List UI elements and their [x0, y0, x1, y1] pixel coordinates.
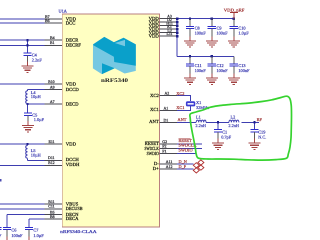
svg-text:10µH: 10µH: [31, 153, 41, 158]
svg-text:0.7pF: 0.7pF: [221, 135, 232, 140]
svg-text:100nF: 100nF: [238, 68, 250, 73]
svg-text:U1A: U1A: [59, 9, 68, 14]
svg-text:A9: A9: [50, 86, 55, 90]
svg-text:nRF5340-CLAA: nRF5340-CLAA: [60, 229, 98, 234]
svg-text:ANT: ANT: [149, 119, 159, 125]
svg-text:VDDH: VDDH: [66, 162, 80, 168]
svg-text:B10: B10: [48, 80, 55, 84]
svg-text:D11: D11: [48, 156, 55, 160]
svg-text:VDD: VDD: [66, 82, 77, 88]
svg-text:E11: E11: [48, 140, 54, 144]
svg-text:C7: C7: [33, 227, 39, 232]
svg-text:A12: A12: [166, 165, 173, 169]
svg-text:DECA: DECA: [66, 216, 79, 222]
svg-text:B12: B12: [48, 161, 55, 165]
svg-text:100nF: 100nF: [217, 68, 229, 73]
svg-text:nRF5340: nRF5340: [101, 78, 128, 84]
svg-text:A7: A7: [50, 100, 55, 104]
svg-text:DECRF: DECRF: [66, 42, 82, 48]
svg-text:SWDIO: SWDIO: [179, 148, 193, 153]
svg-text:XC1: XC1: [150, 107, 160, 113]
svg-text:DCCD: DCCD: [66, 87, 80, 93]
svg-text:F1: F1: [162, 150, 166, 154]
svg-text:100nF: 100nF: [217, 30, 229, 35]
svg-text:1.0µF: 1.0µF: [34, 117, 45, 122]
svg-text:B11: B11: [48, 200, 54, 204]
svg-text:L2: L2: [231, 115, 236, 120]
svg-text:RF: RF: [257, 117, 263, 122]
svg-text:F: F: [0, 233, 2, 238]
svg-text:A2: A2: [165, 92, 170, 96]
svg-text:L1: L1: [196, 115, 201, 120]
svg-text:1.0µF: 1.0µF: [238, 30, 249, 35]
svg-text:100nF: 100nF: [11, 233, 23, 238]
svg-text:DECUSB: DECUSB: [66, 206, 83, 212]
svg-text:SWDIO: SWDIO: [147, 151, 160, 157]
svg-text:ANT: ANT: [178, 117, 187, 122]
svg-text:F2: F2: [162, 145, 166, 149]
svg-text:VDD_nRF: VDD_nRF: [224, 7, 245, 12]
svg-text:VDD: VDD: [149, 34, 160, 40]
svg-text:C6: C6: [11, 227, 17, 232]
svg-text:B4: B4: [50, 36, 55, 40]
svg-text:1.0µF: 1.0µF: [33, 233, 44, 238]
svg-text:XC2: XC2: [176, 91, 184, 96]
svg-text:N.C.: N.C.: [258, 135, 266, 140]
svg-text:A1: A1: [164, 106, 169, 110]
svg-text:2.2nH: 2.2nH: [228, 123, 239, 128]
svg-text:D_P: D_P: [179, 164, 187, 169]
svg-text:DECD: DECD: [66, 101, 79, 107]
svg-text:2.2nF: 2.2nF: [32, 58, 43, 63]
svg-text:XC2: XC2: [150, 93, 160, 99]
svg-text:2.2nH: 2.2nH: [195, 123, 206, 128]
svg-text:XC1: XC1: [176, 105, 184, 110]
svg-text:100nF: 100nF: [195, 68, 207, 73]
svg-text:D+: D+: [153, 166, 159, 172]
svg-text:10µH: 10µH: [31, 94, 41, 99]
svg-text:B6: B6: [45, 19, 50, 23]
svg-text:D1: D1: [164, 118, 169, 122]
svg-text:100nF: 100nF: [195, 30, 207, 35]
svg-text:G2: G2: [162, 140, 167, 144]
svg-text:L11: L11: [166, 32, 172, 36]
svg-text:A11: A11: [166, 160, 173, 164]
svg-text:C11: C11: [48, 205, 54, 209]
svg-text:B1: B1: [50, 41, 55, 45]
svg-text:B8: B8: [50, 215, 55, 219]
svg-text:VDD: VDD: [66, 141, 77, 147]
svg-text:DCC: DCC: [66, 20, 76, 26]
